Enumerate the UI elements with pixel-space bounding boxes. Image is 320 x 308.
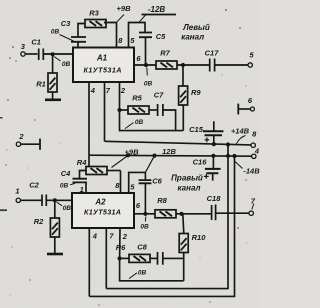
svg-text:R9: R9 [191, 88, 201, 97]
svg-text:C6: C6 [152, 176, 162, 185]
node at C1/R1 junction [51, 52, 55, 56]
op-amp A2 box [72, 193, 134, 228]
C6 top stub [144, 172, 146, 179]
leader 0V at pin6 [146, 68, 149, 76]
svg-text:4: 4 [90, 86, 96, 95]
wire C1 to A1 input [44, 53, 73, 55]
diagonal R4 area to rail2 [112, 155, 129, 167]
svg-text:R5: R5 [132, 94, 142, 103]
plus sign C16 [204, 174, 209, 179]
terminal 1 [16, 198, 20, 202]
feedback loop bottom wire A2 [120, 258, 184, 280]
wire C3 to A1 top [77, 42, 79, 48]
svg-text:4: 4 [92, 231, 98, 240]
capacitor C17 [210, 59, 215, 72]
wire C6 down to output node [144, 184, 146, 214]
C15 top stub [213, 121, 215, 131]
capacitor C6 [139, 180, 152, 183]
leader 7 label [252, 204, 254, 210]
svg-text:4: 4 [254, 147, 260, 156]
capacitor C18 [212, 205, 216, 221]
wire C17 to terminal 5 [215, 64, 248, 66]
capacitor C15 [203, 131, 224, 135]
terminal 2 wire [21, 143, 40, 145]
node rail1/C15 [212, 142, 216, 146]
svg-text:R2: R2 [34, 217, 44, 226]
resistor R1 [48, 73, 57, 92]
leader -12V to pin5 wire [139, 15, 146, 23]
capacitor C16 [205, 169, 221, 173]
wire node to R2 [54, 200, 56, 218]
wire C8 right to R10 wire [163, 257, 184, 259]
wire R2 to common bar [54, 237, 56, 254]
node R7/R9 [181, 63, 185, 67]
wire R5 to C7 [149, 109, 157, 111]
wire R6 to C8 [150, 257, 157, 259]
pin 4 wire A2 down [88, 228, 90, 296]
node pin2/R6 A2 [118, 256, 122, 260]
leader -14V from bus2 [235, 162, 243, 169]
leader +14V to rail1 [236, 136, 245, 145]
svg-text:2: 2 [122, 232, 128, 241]
svg-text:R4: R4 [77, 158, 87, 167]
C16 top stub from rail2 [212, 156, 214, 169]
leader 0V at C2 node [57, 202, 63, 206]
terminal 6 [250, 107, 254, 111]
svg-text:0В: 0В [60, 183, 69, 190]
wire C2 to A2 input [47, 199, 72, 201]
resistor R8 [155, 210, 176, 218]
svg-text:К1УТ531А: К1УТ531А [84, 66, 122, 75]
terminal 6 bar [237, 104, 239, 115]
leader 0V node [54, 57, 61, 62]
wire R10 bottom to C8 wire [183, 253, 185, 281]
node pin6/C6 A2 [143, 212, 147, 216]
capacitor C1 [39, 49, 44, 61]
rail to terminal 4 [89, 155, 252, 156]
svg-text:1: 1 [80, 185, 84, 194]
pin 4 wire A1 down to rail2 [88, 82, 90, 155]
svg-text:0В: 0В [135, 119, 144, 126]
wire node down to R10 [183, 214, 184, 234]
wire R4 left to C4 [80, 171, 87, 179]
wire R7 to C17 [177, 64, 209, 66]
node rail2/C6 diagonal [152, 154, 156, 158]
wire C5 down to pin6 node [145, 37, 147, 65]
edge mark left dash [0, 209, 7, 211]
svg-text:0В: 0В [62, 61, 71, 68]
capacitor C7 [158, 104, 163, 116]
wire junction to R1 [52, 54, 54, 73]
wire node to R6 [120, 257, 129, 259]
pin 6 wire A2 to R8 [134, 213, 155, 215]
common bar under R2 [47, 253, 63, 256]
svg-text:C7: C7 [154, 91, 164, 100]
wire terminal1 to C2 [21, 199, 42, 201]
resistor R3 [85, 20, 106, 28]
wire R8 to C18 [176, 213, 211, 215]
leader 0V under R6 [129, 273, 137, 279]
leader 0V under R5 [125, 123, 134, 129]
terminal 2 [16, 142, 20, 146]
node rail2/bus1 crossing [226, 154, 230, 158]
svg-text:C17: C17 [205, 49, 220, 58]
resistor R6 [129, 254, 150, 262]
diagonal pin5 wire to rail2 [145, 156, 154, 173]
node R8/R10 [179, 212, 183, 216]
svg-text:-12В: -12В [148, 5, 166, 14]
wire terminal3 to C1 [25, 53, 37, 55]
op-amp A1 box [73, 48, 134, 83]
wire R4 right to pin8 [107, 170, 121, 172]
svg-text:К1УТ531А: К1УТ531А [84, 208, 121, 217]
node rail2/R4 feed [126, 153, 130, 157]
svg-text:0В: 0В [144, 81, 153, 88]
capacitor C3 [71, 37, 86, 42]
terminal 4 [252, 154, 256, 158]
svg-text:2: 2 [120, 86, 126, 95]
resistor R2 [50, 218, 59, 237]
pin 2 wire A2 [119, 228, 121, 258]
pin 7 wire A2 down [105, 228, 107, 289]
C16 bottom stub [212, 174, 214, 181]
pin 8 wire A1 [104, 23, 117, 48]
svg-text:канал: канал [178, 183, 201, 192]
leader 0V at A2 pin6 [144, 217, 146, 222]
svg-text:А1: А1 [96, 54, 108, 63]
wire R1 to common bar [52, 92, 54, 100]
wire node to R9 [182, 65, 184, 86]
svg-text:канал: канал [181, 32, 204, 41]
svg-text:C3: C3 [61, 19, 71, 28]
svg-text:R3: R3 [89, 9, 99, 18]
svg-text:C2: C2 [29, 181, 39, 190]
terminal 7 [249, 211, 253, 215]
pin 8 wire A2 [120, 171, 122, 194]
svg-text:C15: C15 [189, 125, 204, 134]
terminal 5 [248, 63, 252, 67]
pin 7 wire A1 down to +rail [104, 82, 106, 141]
scan speckles and edge marks [0, 9, 248, 305]
edge mark left tick [0, 117, 3, 119]
capacitor C4 [73, 179, 88, 183]
capacitor C8 [158, 252, 163, 265]
pin 6 wire A1 to R7 [134, 64, 156, 66]
node C2/R2 [53, 198, 57, 202]
svg-text:+9В: +9В [117, 4, 132, 13]
svg-text:2: 2 [18, 132, 24, 141]
rail to terminal 8 [105, 141, 251, 145]
svg-text:R8: R8 [157, 196, 167, 205]
resistor R10 [179, 234, 188, 253]
node pin2/R5 [117, 108, 121, 112]
svg-text:0В: 0В [63, 205, 72, 212]
svg-text:Правый: Правый [171, 173, 203, 182]
svg-text:А2: А2 [94, 198, 106, 207]
capacitor C2 [42, 195, 46, 207]
terminal 3 [21, 52, 25, 56]
wire R9 bottom down to loop [182, 105, 184, 131]
node rail2/bus2 [232, 154, 236, 158]
svg-text:1: 1 [15, 187, 19, 196]
svg-text:R6: R6 [116, 243, 126, 252]
-12V supply stub wire [142, 14, 177, 16]
svg-text:R1: R1 [36, 80, 46, 89]
wire R3 left to C3 [78, 24, 85, 37]
leader 0V at C4 [70, 183, 75, 184]
terminal 8 [251, 143, 255, 147]
resistor R5 [128, 106, 149, 114]
node rail2/C16 [211, 154, 215, 158]
capacitor C5 [139, 33, 152, 38]
svg-text:12В: 12В [162, 147, 176, 156]
wire C18 to terminal 7 [216, 212, 249, 214]
node pin6/C5 [144, 63, 148, 67]
svg-text:0В: 0В [140, 224, 149, 231]
common bar under R1 [45, 99, 61, 102]
svg-text:+9В: +9В [125, 147, 140, 156]
bus1: rail1 down to pin7 A2 [106, 145, 228, 289]
svg-text:C8: C8 [137, 243, 147, 252]
node rail1/bus [226, 142, 230, 146]
wire C7 right, corner down [163, 110, 175, 131]
bus2: rail2 down to pin4 A2 [89, 156, 234, 296]
svg-text:Левый: Левый [182, 23, 210, 32]
feedback loop bottom wire [120, 110, 184, 131]
svg-text:C5: C5 [156, 32, 166, 41]
C15 bottom stub to rail1 [213, 135, 215, 144]
pin 5 wire A2 [129, 172, 146, 193]
terminal 2 end bar [39, 139, 41, 150]
svg-text:0В: 0В [51, 29, 60, 36]
wire node to R5 [120, 109, 129, 111]
svg-text:C18: C18 [207, 194, 222, 203]
svg-text:R10: R10 [192, 233, 207, 242]
svg-text:-14В: -14В [243, 167, 260, 176]
svg-text:R7: R7 [160, 49, 170, 58]
resistor R9 [179, 86, 188, 105]
resistor R7 [156, 61, 177, 69]
leader 0V at C3 [60, 35, 74, 42]
wire C4 to pin 1 [85, 183, 87, 193]
svg-text:C1: C1 [31, 38, 41, 47]
wire rail2 down to R4 left [88, 155, 90, 166]
leader +9V to pin8 [117, 15, 124, 22]
terminal 6 wire [238, 108, 250, 110]
svg-text:С16: С16 [193, 158, 208, 167]
resistor R4 [86, 167, 107, 175]
pin 2 wire A1 [119, 82, 121, 110]
svg-text:+14В: +14В [231, 127, 250, 136]
plus sign C15 [205, 137, 210, 142]
svg-text:0В: 0В [138, 270, 147, 277]
svg-text:C4: C4 [61, 169, 71, 178]
pin 5 wire A1 [129, 23, 146, 48]
